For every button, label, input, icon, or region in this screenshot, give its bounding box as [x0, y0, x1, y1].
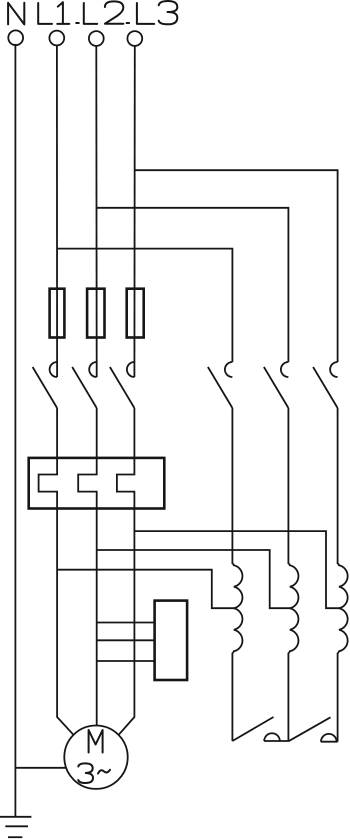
wire N to motor: [15, 767, 66, 769]
fuse F2: [87, 289, 104, 338]
overload relay box: [29, 458, 165, 509]
tap wire L2 to winding W2: [97, 550, 291, 608]
wire branch L1 to right column: [57, 249, 232, 362]
contact K8 bottom: [288, 717, 337, 741]
winding W3: [338, 408, 348, 742]
linkage wire 2: [97, 639, 155, 641]
overload element heater L3 / wire L3 lower: [117, 408, 134, 735]
motor M circle: [64, 726, 127, 789]
label L3: [137, 1, 177, 24]
motor label 3~: [78, 763, 110, 783]
contact K2 main: [72, 362, 97, 408]
fuse F1: [50, 289, 65, 338]
winding W2: [288, 408, 298, 741]
terminal L2: [89, 31, 104, 46]
small box (actuator): [155, 601, 188, 680]
contact K6 right: [313, 362, 338, 408]
motor label M: [89, 730, 103, 753]
wire N vertical: [14, 44, 16, 817]
label L2.: [84, 1, 129, 24]
contact K1 main: [33, 362, 58, 408]
wire L2 vertical upper: [95, 46, 97, 377]
winding W1: [232, 408, 242, 741]
tap wire L1 to winding W1: [57, 570, 234, 609]
contact K5 right: [264, 362, 289, 408]
terminal L3: [127, 31, 142, 46]
overload element heater L1 / wire L1 lower: [39, 408, 74, 735]
label N: [8, 3, 24, 25]
terminal N: [8, 30, 23, 45]
fuse F3: [127, 289, 144, 338]
contact K7 bottom: [232, 717, 288, 741]
wire branch L3 to right column: [134, 170, 337, 362]
wire branch L2 to right column: [97, 208, 289, 362]
linkage wire 1: [97, 622, 155, 624]
wire L3 vertical upper: [133, 46, 135, 377]
overload element heater L2 / wire L2 lower: [78, 408, 97, 726]
contact K4 right: [208, 362, 233, 408]
tap wire L3 to winding W3: [134, 531, 339, 608]
linkage wire 3: [97, 660, 155, 662]
terminal L1: [49, 31, 64, 46]
contact K3 main: [110, 362, 134, 408]
wire L1 vertical upper: [56, 45, 58, 377]
ground: [0, 817, 31, 837]
label L1.: [38, 2, 79, 24]
